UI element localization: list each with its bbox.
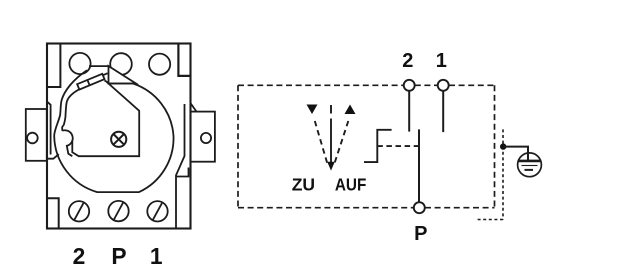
svg-text:2: 2 [73, 243, 86, 269]
svg-text:P: P [414, 223, 427, 245]
svg-text:ZU: ZU [292, 175, 315, 195]
svg-text:AUF: AUF [335, 175, 367, 195]
svg-text:1: 1 [436, 50, 447, 72]
svg-text:2: 2 [402, 50, 413, 72]
svg-text:P: P [111, 243, 126, 269]
svg-text:1: 1 [150, 243, 163, 269]
